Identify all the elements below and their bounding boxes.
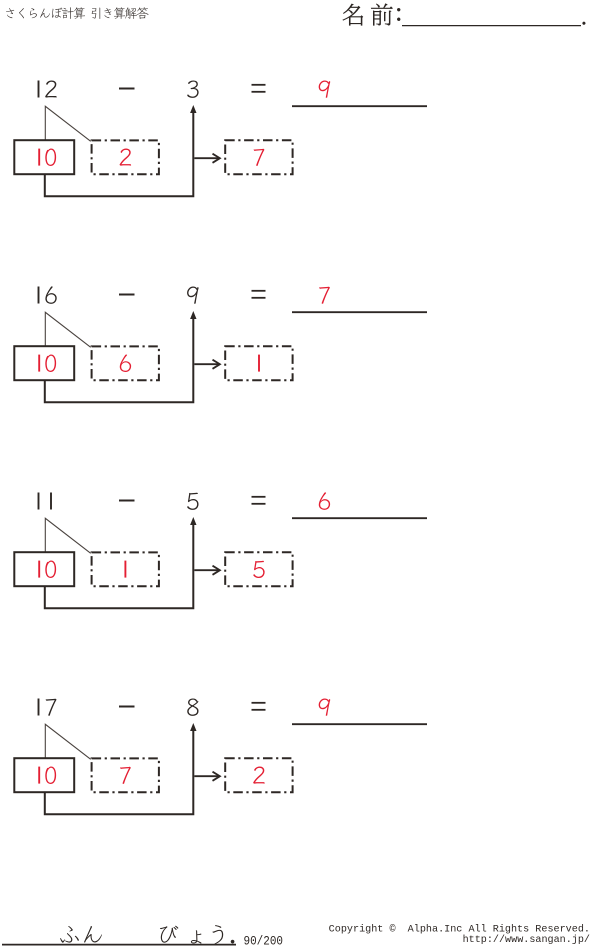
svg-text:90/200: 90/200	[244, 933, 284, 948]
svg-text:http://www.sangan.jp/: http://www.sangan.jp/	[463, 934, 590, 946]
svg-text:Copyright © Alpha.Inc All Rig: Copyright © Alpha.Inc All Rights Reserve…	[329, 923, 590, 935]
